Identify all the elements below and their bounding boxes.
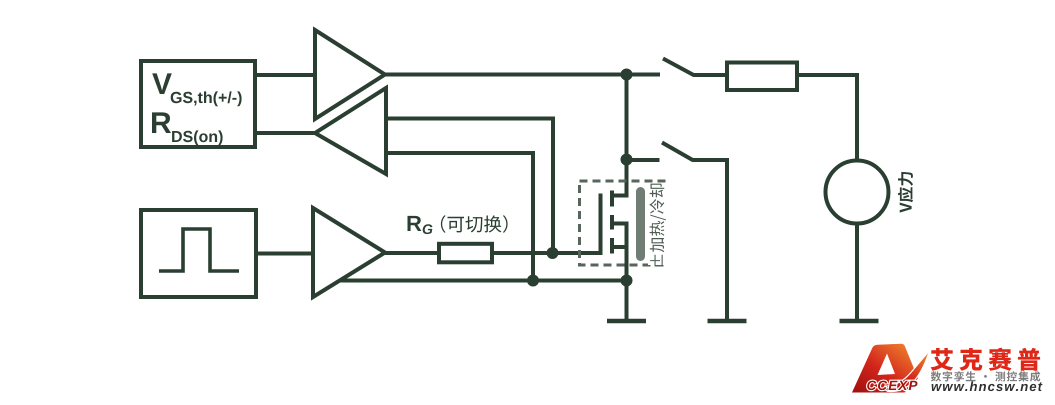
wire S1 to resistor R2 (694, 73, 729, 77)
thermal element bar (636, 192, 645, 257)
pulse waveform symbol (159, 229, 239, 271)
logo url www.hncsw.net (932, 381, 1043, 391)
parameter box U1 (VGS,th / RDS(on)) (141, 61, 255, 147)
junction node gate/sense (547, 247, 559, 259)
label VGS,th(+/-) (152, 73, 241, 106)
wire A2 upper sense line to gate node (386, 119, 553, 254)
wire U1 top output to buffer A1 (255, 73, 318, 77)
junction node source rail / sense (527, 275, 539, 287)
wire S2 branch from drain (627, 158, 660, 162)
junction node drain / switch S2 branch (621, 154, 633, 166)
wire U2 to buffer A3 (256, 252, 316, 256)
wire A2 lower sense line to source rail (386, 153, 533, 281)
junction node drain / top rail (621, 69, 633, 81)
dashed thermal enclosure (580, 181, 665, 265)
ground G1 (607, 319, 646, 324)
label RG（可切换） (408, 215, 508, 234)
buffer amplifier A3 (gate driver) (313, 208, 385, 297)
label ±加热/冷却 (rotated) (648, 184, 667, 267)
logo text 艾克赛普 (931, 348, 1041, 371)
wire RG to MOSFET gate (492, 251, 600, 255)
logo text CCEXP (867, 381, 917, 391)
switch S1 blade (663, 59, 695, 76)
wire top rail from A1 to switch S1 (383, 73, 660, 77)
ground G3 (840, 319, 879, 324)
MOSFET Q1 (DUT) (601, 191, 629, 256)
buffer amplifier A1 (315, 30, 385, 119)
wire source/body vertical (625, 224, 629, 283)
junction node source rail / ground stem (621, 275, 633, 287)
wire ground stem G1 (625, 281, 629, 322)
label RDS(on) (152, 112, 223, 145)
wire drain vertical (625, 73, 629, 196)
buffer amplifier A2 (left-pointing sense buffer) (315, 88, 386, 174)
wire A3 output to resistor RG (383, 251, 441, 255)
resistor RG (439, 244, 492, 262)
wire S2 to ground G2 (693, 160, 727, 321)
ground G2 (708, 319, 747, 324)
wire R2 to voltage source V1 (797, 75, 857, 162)
logo tagline 数字孪生·测控集成 (931, 371, 1040, 381)
voltage source V1 (826, 161, 889, 224)
wire source rail from A3 lower edge to ground stem (341, 279, 627, 283)
logo swoosh (884, 351, 929, 392)
logo ACCEXP mark (letter A) (852, 344, 918, 393)
switch S2 blade (662, 143, 694, 161)
resistor R2 (stress resistor) (727, 63, 797, 91)
label V应力 (rotated) (898, 172, 913, 213)
wire V1 to ground G3 (855, 222, 859, 321)
pulse generator box U2 (141, 210, 256, 297)
wire U1 bottom output to buffer A2 apex (255, 131, 318, 135)
